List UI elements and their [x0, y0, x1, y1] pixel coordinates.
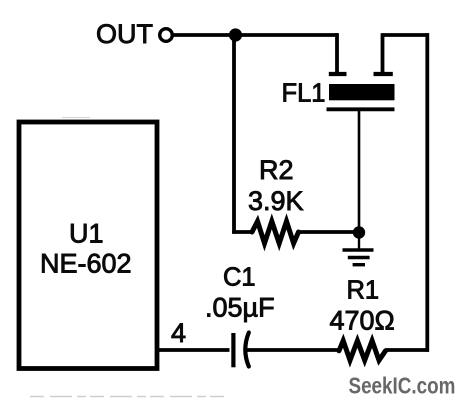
svg-text:C1: C1: [223, 264, 256, 292]
svg-text:NE-602: NE-602: [40, 249, 132, 279]
svg-text:R1: R1: [347, 277, 380, 305]
svg-text:.05µF: .05µF: [205, 293, 275, 323]
svg-text:470Ω: 470Ω: [330, 306, 395, 336]
svg-text:OUT: OUT: [96, 19, 153, 49]
svg-text:4: 4: [171, 318, 186, 348]
svg-text:FL1: FL1: [282, 80, 326, 108]
svg-text:3.9K: 3.9K: [248, 186, 304, 216]
svg-text:R2: R2: [259, 155, 294, 185]
svg-text:U1: U1: [69, 219, 104, 249]
svg-text:SeekIC.com: SeekIC.com: [349, 374, 456, 399]
